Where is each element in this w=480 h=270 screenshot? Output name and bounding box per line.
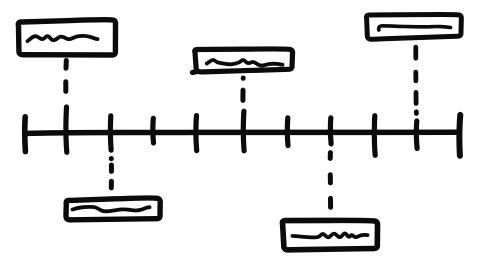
label squiggle 1 bbox=[28, 36, 98, 41]
dashed connector 3 bbox=[413, 47, 418, 113]
tick 7 bbox=[285, 118, 291, 146]
timeline axis bbox=[25, 132, 459, 133]
dashed connector 4 bbox=[109, 159, 114, 188]
label squiggle 3 bbox=[379, 26, 451, 30]
event box 5 bbox=[282, 220, 377, 250]
event box 4 bbox=[66, 198, 160, 220]
tick 8 bbox=[328, 118, 334, 144]
tick 9 bbox=[372, 116, 378, 156]
dashed connector 2 bbox=[240, 78, 245, 100]
label squiggle 4 bbox=[73, 207, 150, 211]
event box 2 bbox=[192, 49, 292, 73]
event box 3 bbox=[366, 14, 461, 39]
label squiggle 2 bbox=[207, 60, 283, 66]
tick 11 bbox=[456, 115, 463, 156]
dashed connector 5 bbox=[328, 153, 333, 208]
event box 1 bbox=[18, 20, 115, 55]
dashed connector 1 bbox=[63, 60, 69, 91]
tick 2 bbox=[63, 107, 69, 152]
tick 10 bbox=[414, 121, 420, 149]
tick 5 bbox=[193, 116, 199, 151]
label squiggle 5 bbox=[293, 233, 368, 237]
tick 1 bbox=[22, 117, 28, 152]
tick 6 bbox=[241, 111, 247, 151]
tick 3 bbox=[108, 116, 114, 150]
tick 4 bbox=[150, 118, 156, 143]
